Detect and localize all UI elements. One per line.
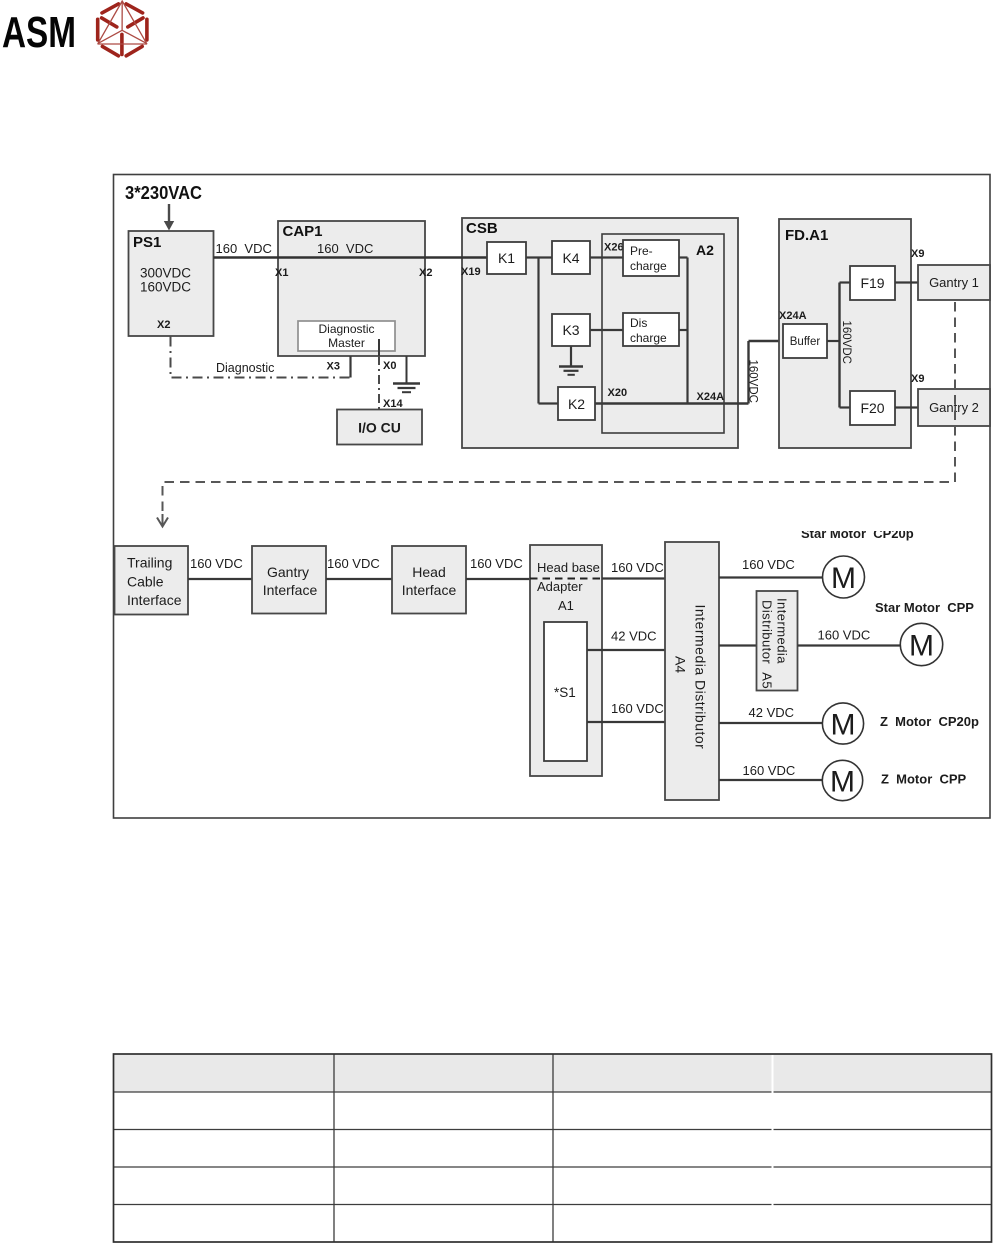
svg-text:Cable: Cable — [127, 574, 164, 590]
wire trailing to gantry interface — [188, 578, 252, 580]
relay K3 — [552, 314, 590, 346]
discharge box — [623, 313, 679, 346]
CSB box — [462, 218, 738, 448]
svg-text:Intermedia Distributor: Intermedia Distributor — [693, 605, 709, 750]
ground below CAP1 — [393, 384, 420, 393]
svg-text:charge: charge — [630, 331, 667, 345]
svg-text:A1: A1 — [558, 598, 574, 613]
svg-text:160 VDC: 160 VDC — [743, 763, 796, 778]
svg-text:K2: K2 — [568, 396, 585, 412]
svg-text:FD.A1: FD.A1 — [785, 227, 828, 244]
svg-text:Diagnostic: Diagnostic — [216, 361, 274, 375]
wire A4 to star motor CP20p — [719, 576, 823, 578]
svg-text:42 VDC: 42 VDC — [749, 705, 795, 720]
headbase adapter A1 box — [530, 545, 602, 776]
power supply PS1 box — [129, 231, 214, 336]
svg-text:Distributor A5: Distributor A5 — [760, 600, 775, 689]
svg-text:160VDC: 160VDC — [840, 321, 852, 364]
svg-text:A4: A4 — [673, 656, 689, 673]
wire A5 to star motor CPP — [798, 644, 901, 646]
svg-text:Interface: Interface — [127, 592, 182, 608]
svg-text:X24A: X24A — [697, 391, 725, 403]
intermedia distributor A5 box — [757, 591, 798, 691]
wire K1 to K4 — [526, 256, 552, 258]
wire S1 42VDC to A4 — [587, 649, 665, 651]
svg-text:X19: X19 — [461, 266, 481, 278]
wire bus to F20 — [840, 406, 851, 408]
wire K3 to Discharge — [590, 329, 623, 331]
svg-text:Trailing: Trailing — [127, 555, 172, 571]
wire headbase to A4 — [602, 577, 665, 579]
svg-text:Buffer: Buffer — [790, 336, 821, 348]
svg-text:160 VDC: 160 VDC — [317, 241, 373, 256]
svg-text:3*230VAC: 3*230VAC — [125, 183, 202, 203]
ASM logo hexagon — [98, 1, 147, 56]
svg-text:Star Motor CPP: Star Motor CPP — [875, 600, 974, 615]
wire X3 stub — [349, 356, 351, 378]
wire diagnostic dash-dot PS1 to X3 — [171, 337, 351, 378]
svg-text:Interface: Interface — [263, 582, 318, 598]
svg-text:CAP1: CAP1 — [283, 223, 323, 240]
svg-text:I/O CU: I/O CU — [358, 420, 401, 436]
svg-text:X24A: X24A — [779, 310, 807, 322]
svg-text:160VDC: 160VDC — [140, 280, 191, 295]
svg-text:160 VDC: 160 VDC — [216, 241, 272, 256]
svg-text:Gantry 1: Gantry 1 — [929, 275, 979, 290]
gantry interface box — [252, 546, 326, 614]
wire buffer to fuse bus — [827, 340, 840, 342]
ASM logo text — [2, 9, 76, 57]
svg-text:Dis: Dis — [630, 316, 647, 330]
wire A4 to Z motor CP20p — [719, 722, 823, 724]
svg-text:*S1: *S1 — [554, 685, 576, 700]
svg-text:Z Motor CPP: Z Motor CPP — [881, 772, 967, 787]
svg-text:Interface: Interface — [402, 582, 457, 598]
diagnostic master box — [298, 321, 395, 351]
capacitor unit CAP1 box — [275, 221, 432, 356]
I/O CU box — [337, 410, 422, 445]
motor Z CP20p — [822, 703, 863, 744]
svg-text:K1: K1 — [498, 250, 515, 266]
svg-text:ASM: ASM — [2, 9, 76, 57]
wire X0 stub solid — [378, 339, 380, 356]
svg-text:160 VDC: 160 VDC — [611, 701, 664, 716]
wire 160VDC main bus PS1 to K1 — [214, 256, 488, 259]
svg-text:X2: X2 — [419, 267, 432, 279]
svg-text:X9: X9 — [911, 373, 924, 385]
svg-text:Gantry: Gantry — [267, 564, 309, 580]
svg-text:Master: Master — [328, 336, 365, 350]
svg-text:X2: X2 — [157, 319, 170, 331]
assembly A2 box — [602, 234, 724, 433]
svg-text:PS1: PS1 — [133, 234, 161, 251]
wire fuse vertical bus — [838, 283, 840, 408]
svg-text:X0: X0 — [383, 360, 396, 372]
svg-text:Intermedia: Intermedia — [775, 598, 790, 664]
fuse F19 — [850, 266, 895, 300]
gantry 2 box — [918, 389, 990, 426]
wire dashed through headbase — [530, 578, 602, 580]
wire to ground below CAP1 — [406, 356, 408, 383]
label Star Motor CP20p (clipped) — [790, 500, 925, 541]
svg-text:K4: K4 — [562, 250, 579, 266]
fuse distributor FD.A1 box — [779, 219, 911, 448]
relay K2 — [558, 387, 595, 420]
svg-text:X26: X26 — [604, 242, 624, 254]
svg-text:300VDC: 300VDC — [140, 266, 191, 281]
wire A4 to A5 — [719, 644, 757, 646]
svg-text:160 VDC: 160 VDC — [327, 556, 380, 571]
wire S1 160VDC to A4 — [587, 721, 665, 723]
wire X0-X14 dash-dot to I/O CU — [378, 356, 380, 410]
svg-text:F20: F20 — [860, 400, 884, 416]
switch *S1 box — [544, 622, 587, 761]
wire A2 vertical bus — [686, 258, 688, 404]
svg-text:M: M — [831, 562, 856, 595]
svg-text:160 VDC: 160 VDC — [190, 556, 243, 571]
svg-text:X3: X3 — [327, 361, 340, 373]
svg-text:X1: X1 — [275, 267, 288, 279]
diagram outer frame — [114, 175, 991, 819]
svg-text:M: M — [909, 630, 934, 663]
wire junction vertical to K2 — [537, 258, 539, 404]
svg-text:A2: A2 — [696, 242, 714, 258]
svg-text:160VDC: 160VDC — [747, 360, 759, 403]
relay K4 — [552, 241, 590, 274]
wire Discharge to A2 bus — [679, 329, 688, 331]
fuse F20 — [850, 391, 895, 425]
svg-text:X20: X20 — [608, 387, 628, 399]
wire into K2 — [539, 402, 559, 404]
svg-text:160 VDC: 160 VDC — [611, 560, 664, 575]
wire F20 to Gantry2 — [895, 406, 918, 408]
svg-text:K3: K3 — [562, 322, 579, 338]
ground below K3 — [559, 367, 583, 375]
svg-text:M: M — [831, 709, 856, 742]
wire Pre-charge to A2 bus — [679, 256, 688, 258]
svg-text:charge: charge — [630, 259, 667, 273]
wire 160VDC riser — [747, 341, 749, 404]
svg-text:M: M — [830, 766, 855, 799]
gantry 1 box — [918, 265, 990, 300]
parts table — [114, 1054, 992, 1242]
motor star CPP — [900, 623, 942, 665]
wire bus to F19 — [840, 281, 851, 283]
motor star CP20p — [823, 556, 865, 598]
svg-text:Head: Head — [412, 564, 445, 580]
wire K3 ground stub — [570, 346, 572, 366]
head interface box — [392, 546, 466, 614]
wire K2 output X20-X24A — [595, 402, 749, 404]
wire A4 to Z motor CPP — [719, 779, 823, 781]
pre-charge box — [623, 240, 679, 276]
svg-text:160 VDC: 160 VDC — [742, 557, 795, 572]
relay K1 — [487, 242, 526, 274]
wire F19 to Gantry1 — [895, 281, 918, 283]
svg-text:CSB: CSB — [466, 220, 498, 237]
dashed feedback line gantry to trailing cable — [157, 302, 955, 527]
wire head interface to headbase — [466, 578, 530, 580]
svg-text:F19: F19 — [860, 275, 884, 291]
trailing cable interface box — [115, 546, 189, 615]
svg-text:Head base: Head base — [537, 560, 600, 575]
buffer box — [783, 324, 827, 358]
svg-text:Z Motor CP20p: Z Motor CP20p — [880, 714, 979, 729]
wire into Buffer — [749, 340, 784, 342]
svg-text:42 VDC: 42 VDC — [611, 629, 657, 644]
wire K4 to Pre-charge — [590, 256, 623, 258]
svg-text:Adapter: Adapter — [537, 579, 583, 594]
wire mains arrow into PS1 — [164, 204, 174, 231]
intermedia distributor A4 box — [665, 542, 719, 800]
svg-text:X9: X9 — [911, 248, 924, 260]
svg-text:Diagnostic: Diagnostic — [318, 322, 374, 336]
svg-text:160 VDC: 160 VDC — [818, 628, 871, 643]
wire gantry to head interface — [326, 578, 392, 580]
svg-text:160 VDC: 160 VDC — [470, 556, 523, 571]
svg-text:Pre-: Pre- — [630, 244, 653, 258]
motor Z CPP — [822, 760, 862, 800]
svg-text:X14: X14 — [383, 398, 403, 410]
